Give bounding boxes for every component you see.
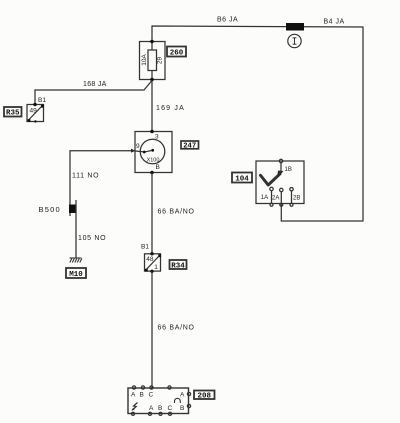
svg-text:1: 1 (154, 264, 158, 271)
svg-text:B: B (180, 405, 184, 412)
svg-text:1B: 1B (285, 167, 292, 173)
svg-text:105 NO: 105 NO (78, 235, 106, 242)
svg-text:B500: B500 (39, 205, 61, 214)
ignition switch X100 (131, 130, 172, 175)
connector 49 (R35) (27, 103, 44, 123)
svg-text:247: 247 (183, 143, 196, 151)
connector 48 (R34) (145, 252, 162, 273)
svg-text:208: 208 (197, 393, 211, 401)
label M10 (66, 268, 86, 279)
svg-text:X100: X100 (147, 158, 160, 164)
label 208 (194, 391, 215, 401)
svg-text:29: 29 (157, 57, 164, 65)
svg-text:C: C (149, 392, 154, 399)
label R34 (170, 260, 187, 271)
svg-text:49: 49 (30, 108, 38, 115)
wire 66 BA/NO upper (151, 173, 153, 254)
svg-text:10A: 10A (141, 54, 148, 66)
splice B500 (69, 205, 77, 214)
svg-text:A: A (180, 392, 185, 399)
ground M10 (70, 258, 82, 263)
svg-text:1A: 1A (261, 195, 268, 201)
svg-text:260: 260 (170, 50, 184, 58)
svg-text:104: 104 (235, 176, 249, 184)
label 247 (181, 141, 199, 151)
wire top rail B6 JA / B4 JA (152, 26, 363, 221)
label R35 (4, 107, 22, 118)
svg-text:2B: 2B (293, 195, 300, 201)
wire 168 JA (35, 81, 152, 105)
svg-text:3: 3 (155, 134, 159, 141)
svg-text:M10: M10 (69, 271, 83, 279)
svg-text:168 JA: 168 JA (83, 81, 107, 88)
svg-text:66 BA/NO: 66 BA/NO (158, 209, 195, 216)
svg-text:169 JA: 169 JA (156, 105, 185, 112)
wire 66 BA/NO lower (151, 271, 153, 388)
wire 111 NO from pin 9 (70, 151, 135, 216)
label 104 (232, 173, 252, 184)
label 260 (167, 47, 186, 58)
svg-text:48: 48 (146, 256, 154, 263)
svg-text:B: B (158, 405, 162, 412)
svg-text:A: A (131, 392, 136, 399)
fuse 29 10A (140, 40, 166, 82)
splice black connector on top rail (286, 23, 304, 31)
wire 105 NO (75, 200, 77, 258)
svg-text:B4 JA: B4 JA (324, 19, 345, 26)
svg-text:B: B (156, 164, 160, 171)
svg-text:66 BA/NO: 66 BA/NO (158, 325, 195, 332)
svg-text:R34: R34 (171, 263, 185, 271)
svg-text:A: A (149, 405, 154, 412)
svg-text:B1: B1 (141, 244, 149, 251)
svg-text:2A: 2A (272, 196, 279, 202)
svg-text:B6 JA: B6 JA (217, 17, 238, 24)
instrument cluster 208 (128, 386, 191, 416)
svg-text:C: C (168, 405, 173, 412)
svg-text:R35: R35 (6, 110, 20, 118)
switch assembly 104 (256, 159, 304, 206)
meter I (288, 34, 301, 47)
svg-text:B: B (140, 392, 144, 399)
svg-text:111 NO: 111 NO (72, 173, 99, 180)
wire 169 JA (151, 81, 153, 132)
svg-text:B1: B1 (38, 97, 46, 104)
svg-text:9: 9 (136, 143, 140, 150)
